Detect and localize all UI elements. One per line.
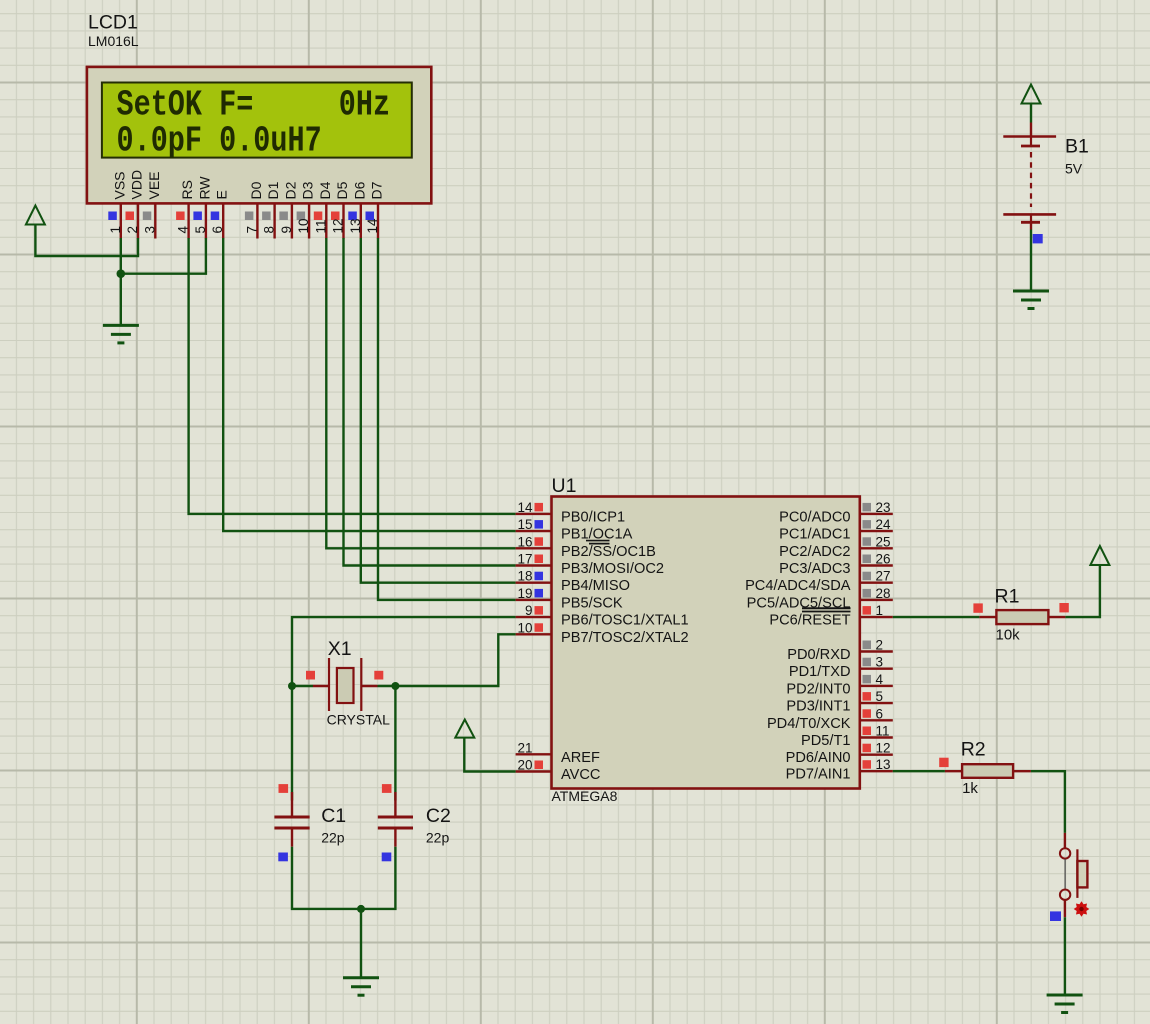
push button top pin stub: [1064, 833, 1066, 848]
svg-text:PD7/AIN1: PD7/AIN1: [786, 767, 851, 783]
svg-text:E: E: [214, 190, 230, 199]
svg-text:D2: D2: [282, 181, 298, 199]
svg-text:0.0pF 0.0uH7: 0.0pF 0.0uH7: [117, 121, 322, 162]
svg-text:ATMEGA8: ATMEGA8: [552, 788, 618, 804]
svg-text:21: 21: [517, 740, 532, 755]
svg-text:6: 6: [876, 706, 884, 721]
R2 reference label: [961, 739, 986, 761]
U1 overline SS (PB2): [589, 543, 610, 545]
svg-text:PB4/MISO: PB4/MISO: [561, 578, 630, 594]
U1 right pin name labels: [745, 509, 851, 782]
B1 reference label: [1065, 136, 1089, 158]
C1 pin indicator squares: [278, 784, 288, 861]
microcontroller U1 ATMEGA8 body: [552, 497, 860, 789]
wire node to C1 top: [291, 686, 293, 801]
svg-text:PC0/ADC0: PC0/ADC0: [779, 509, 850, 525]
U1 right pin stubs: [860, 514, 893, 771]
wire R1 to power arrow: [1065, 565, 1100, 617]
crystal X1 body: [329, 658, 361, 711]
wire arrow to battery top: [1030, 104, 1032, 123]
junction node VSS/RW ground: [117, 269, 126, 278]
svg-text:PD6/AIN0: PD6/AIN0: [786, 750, 851, 766]
svg-text:11: 11: [876, 724, 890, 739]
wire U1 PB6 to crystal node A: [292, 617, 516, 686]
U1 overline RESET (PC6): [802, 611, 851, 613]
svg-text:AREF: AREF: [561, 750, 600, 766]
svg-text:U1: U1: [552, 475, 577, 497]
svg-text:9: 9: [279, 226, 294, 234]
svg-text:VSS: VSS: [111, 171, 127, 199]
svg-text:22p: 22p: [321, 830, 345, 846]
wire LCD VSS pin1 down to node: [120, 238, 122, 274]
svg-text:PC2/ADC2: PC2/ADC2: [779, 544, 850, 560]
resistor R2 pin stubs: [945, 770, 1031, 772]
capacitor C2 plates: [378, 817, 413, 828]
LCD1 pin name labels: [111, 170, 384, 200]
svg-text:3: 3: [876, 655, 884, 670]
svg-text:PC4/ADC4/SDA: PC4/ADC4/SDA: [745, 578, 851, 594]
svg-text:R2: R2: [961, 739, 986, 761]
wire push button to ground: [1064, 917, 1066, 995]
wire node B to crystal right pin: [378, 685, 396, 687]
U1 reference label: [552, 475, 577, 497]
push button pin indicator square: [1050, 911, 1061, 921]
svg-text:24: 24: [876, 517, 892, 532]
svg-text:2: 2: [876, 638, 884, 653]
U1 underline OC (PB1/OC1A): [586, 540, 610, 542]
LCD1 pin stubs: [121, 203, 378, 238]
capacitor C1 plates: [274, 817, 309, 828]
svg-text:7: 7: [244, 226, 259, 234]
svg-text:PB7/TOSC2/XTAL2: PB7/TOSC2/XTAL2: [561, 630, 689, 646]
svg-text:14: 14: [517, 500, 533, 515]
svg-text:14: 14: [365, 218, 380, 234]
svg-text:0Hz: 0Hz: [339, 85, 390, 126]
svg-text:10: 10: [517, 620, 532, 635]
svg-text:PD1/TXD: PD1/TXD: [789, 664, 851, 680]
svg-text:PB6/TOSC1/XTAL1: PB6/TOSC1/XTAL1: [561, 613, 689, 629]
svg-text:5: 5: [193, 226, 208, 234]
svg-text:10k: 10k: [996, 627, 1021, 644]
ground symbol (push button): [1047, 995, 1083, 1013]
wire node to C2 top: [394, 686, 396, 801]
svg-text:LCD1: LCD1: [88, 12, 138, 34]
svg-text:4: 4: [176, 226, 191, 234]
capacitor C2 pin stubs: [394, 792, 396, 847]
svg-text:RS: RS: [179, 180, 195, 199]
wire LCD D5 pin12 to U1 PB3: [344, 238, 516, 566]
svg-text:PB5/SCK: PB5/SCK: [561, 595, 623, 611]
wire U1 PB7 to crystal node B: [395, 634, 515, 686]
svg-text:16: 16: [517, 534, 532, 549]
crystal X1 pin stubs: [313, 685, 378, 687]
svg-text:PD0/RXD: PD0/RXD: [787, 647, 850, 663]
LCD display LCD1 body: [87, 67, 431, 204]
wire LCD VDD pin2 to power arrow: [35, 225, 138, 257]
wire LCD D4 pin11 to U1 PB2: [326, 238, 515, 548]
svg-text:11: 11: [313, 219, 328, 233]
R2 pin indicator square: [939, 758, 948, 767]
svg-text:25: 25: [876, 534, 891, 549]
power arrow (AVCC supply): [455, 720, 474, 738]
svg-text:PC5/ADC5/SCL: PC5/ADC5/SCL: [747, 595, 851, 611]
wire LCD RS pin4 to U1 PB0: [189, 238, 516, 514]
svg-text:D4: D4: [317, 181, 333, 199]
svg-text:1k: 1k: [962, 780, 978, 797]
wire node to LCD ground: [120, 274, 122, 326]
wire LCD E pin6 to U1 PB1: [223, 238, 515, 531]
wire AVCC to power arrow: [464, 738, 515, 772]
svg-text:D3: D3: [300, 181, 316, 199]
svg-text:PB3/MOSI/OC2: PB3/MOSI/OC2: [561, 561, 664, 577]
svg-text:PB0/ICP1: PB0/ICP1: [561, 509, 625, 525]
svg-text:20: 20: [517, 758, 532, 773]
resistor R1 body: [996, 610, 1048, 624]
junction node A (XTAL1): [288, 682, 296, 690]
resistor R1 pin stubs: [979, 616, 1065, 618]
svg-text:RW: RW: [196, 176, 212, 200]
U1 right pin indicator squares: [863, 503, 872, 769]
R2 value label 1k: [962, 780, 978, 797]
svg-text:5: 5: [876, 689, 884, 704]
U1 left pin numbers: [517, 500, 533, 773]
R1 value label 10k: [996, 627, 1021, 644]
svg-text:8: 8: [262, 226, 277, 234]
wire LCD RW pin5 to node: [121, 238, 206, 274]
svg-text:12: 12: [331, 218, 346, 233]
X1 pin indicator squares: [306, 671, 383, 680]
wire LCD D6 pin13 to U1 PB4: [361, 238, 516, 583]
svg-text:SetOK F=: SetOK F=: [117, 85, 254, 126]
svg-text:2: 2: [125, 226, 140, 234]
junction node C1/C2 ground: [357, 905, 365, 913]
svg-text:1: 1: [108, 226, 123, 234]
svg-text:D7: D7: [369, 181, 385, 199]
svg-text:VEE: VEE: [146, 171, 162, 199]
power arrow (battery positive): [1022, 85, 1041, 104]
svg-text:VDD: VDD: [129, 170, 145, 200]
U1 left pin stubs: [516, 514, 552, 772]
svg-text:B1: B1: [1065, 136, 1089, 158]
resistor R2 body: [962, 764, 1013, 778]
svg-text:PD2/INT0: PD2/INT0: [786, 681, 850, 697]
svg-text:D1: D1: [265, 181, 281, 199]
svg-text:PC6/RESET: PC6/RESET: [769, 613, 850, 629]
LCD1 reference label: [88, 12, 138, 34]
capacitor C1 pin stubs: [291, 792, 293, 847]
svg-text:X1: X1: [328, 638, 352, 660]
svg-text:PD5/T1: PD5/T1: [801, 733, 850, 749]
C2 reference label: [426, 805, 451, 827]
B1 value label 5V: [1065, 161, 1083, 177]
svg-text:AVCC: AVCC: [561, 767, 600, 783]
svg-text:D6: D6: [351, 181, 367, 199]
svg-text:D0: D0: [248, 181, 264, 199]
svg-text:C1: C1: [321, 805, 346, 827]
wire LCD D7 pin14 to U1 PB5: [378, 238, 516, 600]
svg-text:1: 1: [876, 603, 884, 618]
wire R2 to push button: [1031, 771, 1065, 833]
wire node A to crystal left pin: [292, 685, 313, 687]
svg-text:23: 23: [876, 500, 891, 515]
B1 pin indicator square: [1033, 234, 1043, 243]
wire node to crystal ground: [360, 909, 362, 978]
C1 value label 22p: [321, 830, 345, 846]
svg-text:CRYSTAL: CRYSTAL: [327, 712, 390, 728]
svg-text:R1: R1: [995, 585, 1020, 607]
LCD1 value label LM016L: [88, 33, 139, 49]
C2 value label 22p: [426, 830, 450, 846]
U1 value label ATMEGA8: [552, 788, 618, 804]
svg-text:13: 13: [876, 757, 891, 772]
svg-text:13: 13: [348, 218, 363, 233]
svg-text:D5: D5: [334, 181, 350, 199]
U1 overline SCL (PC5): [802, 607, 851, 609]
R1 reference label: [995, 585, 1020, 607]
svg-text:10: 10: [296, 218, 311, 233]
ground symbol (crystal caps): [343, 978, 379, 996]
C2 pin indicator squares: [382, 784, 392, 861]
X1 reference label: [328, 638, 352, 660]
svg-text:15: 15: [517, 517, 532, 532]
svg-text:12: 12: [876, 741, 891, 756]
push button actuator marker (red burst): [1074, 901, 1090, 917]
junction node B (XTAL2): [391, 682, 399, 690]
svg-text:PC3/ADC3: PC3/ADC3: [779, 561, 850, 577]
svg-text:28: 28: [876, 586, 891, 601]
wire U1 PD7/AIN1 to R2: [893, 770, 945, 772]
svg-text:C2: C2: [426, 805, 451, 827]
U1 left pin name labels: [561, 509, 689, 783]
svg-text:9: 9: [525, 603, 533, 618]
LCD1 pin numbers 1-14: [108, 218, 380, 234]
svg-text:PD4/T0/XCK: PD4/T0/XCK: [767, 716, 851, 732]
svg-text:6: 6: [210, 226, 225, 234]
power arrow (R1 pull-up): [1090, 546, 1109, 565]
svg-text:PB2/SS/OC1B: PB2/SS/OC1B: [561, 544, 656, 560]
C1 reference label: [321, 805, 346, 827]
wire C1 bottom to ground node: [292, 847, 361, 909]
svg-text:22p: 22p: [426, 830, 450, 846]
X1 value label CRYSTAL: [327, 712, 390, 728]
U1 right pin numbers: [876, 500, 892, 772]
ground symbol (battery): [1013, 291, 1049, 309]
R1 pin indicator squares: [973, 603, 1068, 613]
svg-text:PC1/ADC1: PC1/ADC1: [779, 527, 850, 543]
battery B1 symbol: [1003, 123, 1056, 230]
svg-text:3: 3: [142, 226, 157, 234]
svg-text:19: 19: [517, 586, 532, 601]
ground symbol (LCD): [103, 325, 139, 343]
wire C2 bottom to ground node: [361, 847, 395, 909]
svg-text:5V: 5V: [1065, 161, 1083, 177]
push button bottom pin stub: [1064, 900, 1066, 917]
power arrow (VDD supply): [26, 206, 45, 225]
svg-text:17: 17: [517, 552, 532, 567]
push button symbol: [1060, 848, 1088, 900]
svg-text:27: 27: [876, 569, 891, 584]
wire U1 PC6/RESET to R1: [893, 616, 980, 618]
LCD1 pin indicator squares: [108, 212, 374, 221]
svg-text:PD3/INT1: PD3/INT1: [786, 699, 850, 715]
svg-text:26: 26: [876, 552, 891, 567]
wire battery bottom to ground: [1030, 230, 1032, 292]
U1 left pin indicator squares: [535, 503, 544, 769]
svg-text:4: 4: [876, 672, 884, 687]
LCD1 screen: [102, 83, 412, 162]
svg-text:18: 18: [517, 569, 532, 584]
svg-text:LM016L: LM016L: [88, 33, 139, 49]
